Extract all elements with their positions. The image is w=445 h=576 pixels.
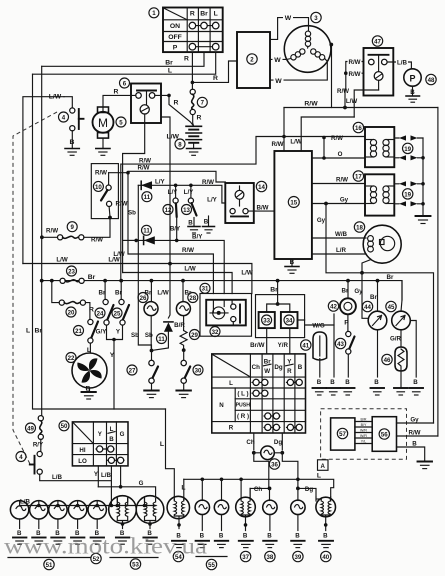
- starter motor 5: [93, 107, 114, 149]
- svg-text:19: 19: [404, 191, 411, 198]
- clutch switch 4 (top): [49, 94, 84, 149]
- svg-text:Br: Br: [370, 294, 377, 301]
- ground (53a): [116, 538, 129, 545]
- spark plugs 19 lower: [394, 181, 423, 206]
- starter cut relay 47: [354, 48, 393, 117]
- label 52: [91, 553, 101, 563]
- cooling fan 22: [72, 353, 107, 393]
- svg-text:R/W: R/W: [115, 201, 127, 208]
- ground (40): [319, 541, 333, 548]
- svg-text:O: O: [338, 151, 343, 158]
- svg-text:B/R: B/R: [174, 322, 185, 329]
- svg-text:29: 29: [191, 332, 198, 339]
- svg-text:L/Y: L/Y: [168, 189, 178, 196]
- label 24: [95, 308, 105, 318]
- mechanical link dashed: [13, 112, 57, 464]
- ground (meter 44): [371, 388, 385, 395]
- svg-text:L/B: L/B: [52, 474, 62, 481]
- svg-text:www.moto.kiev.ua: www.moto.kiev.ua: [4, 534, 207, 559]
- fuse 20 (headlight fuse): [52, 281, 94, 320]
- ground (51c): [51, 538, 64, 545]
- R/W main line across top: [284, 107, 438, 109]
- wire relay coil to L/W line: [123, 123, 145, 273]
- label 11a: [142, 192, 152, 202]
- dimmer switch 25: [115, 279, 129, 336]
- svg-text:L/W: L/W: [290, 139, 301, 146]
- label 30: [193, 365, 203, 375]
- tachometer bulb 28: [174, 279, 192, 331]
- svg-text:51: 51: [46, 562, 53, 569]
- L bus bottom: [184, 479, 334, 497]
- Gy tap to meter 44: [362, 273, 369, 319]
- svg-text:B: B: [204, 219, 209, 226]
- svg-text:L/Y: L/Y: [207, 197, 217, 204]
- svg-text:Br/W: Br/W: [250, 342, 265, 349]
- svg-text:20: 20: [68, 309, 75, 316]
- indicator lamp 39: [291, 488, 305, 539]
- ground (battery): [187, 149, 201, 156]
- Sb wire from diode line down: [138, 185, 151, 350]
- svg-text:L/W: L/W: [241, 270, 252, 277]
- svg-text:21: 21: [75, 328, 82, 335]
- svg-text:Y/L: Y/L: [361, 440, 366, 444]
- ground (51d): [71, 538, 84, 545]
- svg-text:L: L: [214, 11, 218, 18]
- svg-text:Y/R: Y/R: [278, 342, 289, 349]
- wire B flasher to ground: [397, 447, 425, 461]
- svg-text:15: 15: [290, 199, 297, 206]
- svg-text:24: 24: [97, 310, 104, 317]
- wire L from ignition to left riser: [33, 52, 216, 74]
- switch pod outer box: [256, 295, 305, 338]
- meter light bulb 26: [131, 279, 158, 353]
- label 45: [386, 301, 396, 311]
- side stand relay 14: [225, 183, 254, 223]
- label 25: [112, 308, 122, 318]
- svg-text:30: 30: [195, 367, 202, 374]
- left riser L: [33, 74, 166, 409]
- svg-text:B: B: [345, 379, 350, 386]
- svg-text:49: 49: [27, 425, 34, 432]
- svg-text:W/G: W/G: [312, 322, 325, 329]
- svg-text:R/W: R/W: [331, 135, 343, 142]
- svg-text:56: 56: [381, 431, 388, 438]
- spark plug common ground wire: [422, 138, 424, 216]
- svg-text:L/W: L/W: [113, 251, 124, 258]
- parking switch 4b: [30, 439, 111, 481]
- svg-text:Br: Br: [99, 289, 106, 296]
- ground (CDI): [285, 267, 299, 274]
- R/W riser to relay 47: [344, 89, 346, 108]
- svg-text:11: 11: [158, 336, 165, 343]
- label 37: [240, 551, 250, 561]
- label 34: [284, 315, 294, 325]
- svg-text:B: B: [374, 379, 379, 386]
- wire Y/R from 34 to table: [289, 328, 291, 354]
- svg-text:46: 46: [384, 357, 391, 364]
- R/W line mid (box 14 feed): [128, 171, 225, 182]
- svg-text:47: 47: [374, 38, 381, 45]
- svg-text:R: R: [213, 75, 218, 82]
- wire Ch to indicator lamps: [254, 453, 269, 489]
- svg-text:R/Y: R/Y: [33, 441, 44, 448]
- horn 48: [404, 69, 421, 96]
- label 33: [262, 315, 272, 325]
- label 9: [67, 222, 77, 232]
- svg-text:L: L: [317, 473, 321, 480]
- L/W drop with diode 11c: [152, 264, 174, 351]
- svg-text:16: 16: [355, 125, 362, 132]
- brake switch 43: [345, 331, 354, 386]
- svg-text:9: 9: [71, 224, 75, 231]
- svg-text:Br: Br: [115, 289, 122, 296]
- label 21: [74, 326, 84, 336]
- fuse 23 (signal fuse): [60, 278, 84, 283]
- svg-text:14: 14: [258, 184, 265, 191]
- label 38: [265, 551, 275, 561]
- flasher unit 56: [372, 417, 396, 452]
- svg-text:W: W: [275, 78, 282, 85]
- label 2: [247, 54, 257, 64]
- fuse 49: [33, 416, 44, 449]
- wire W/G from 34 to tail lamp: [298, 314, 335, 325]
- horn button 42: [340, 279, 356, 332]
- label 49: [26, 423, 36, 433]
- svg-text:B: B: [295, 533, 300, 540]
- svg-text:33: 33: [263, 317, 270, 324]
- svg-text:38: 38: [267, 554, 274, 561]
- indicator lamp 38: [263, 488, 277, 539]
- svg-text:R/W: R/W: [137, 165, 149, 172]
- svg-text:19: 19: [404, 146, 411, 153]
- svg-text:28: 28: [189, 295, 196, 302]
- label 8: [175, 139, 185, 149]
- rectifier/regulator 2: [237, 32, 270, 88]
- label 3: [311, 12, 321, 22]
- label 23: [67, 266, 77, 276]
- svg-text:R: R: [114, 89, 119, 96]
- wire B/Y left of diode to L/W riser: [123, 239, 137, 241]
- starter button unit 32: [200, 294, 252, 337]
- svg-text:R/W: R/W: [348, 71, 360, 78]
- svg-text:L/Y: L/Y: [184, 189, 194, 196]
- wire relay 6 right to L/W riser: [161, 117, 170, 264]
- svg-text:1: 1: [152, 10, 156, 17]
- wire pickup 18 to Gy junction: [362, 260, 371, 273]
- headlamp 53b: [136, 496, 164, 537]
- svg-text:R: R: [190, 11, 195, 18]
- label 28: [188, 293, 198, 303]
- svg-text:18: 18: [356, 224, 363, 231]
- L wire vertical right of table: [166, 409, 175, 497]
- svg-text:B: B: [323, 533, 328, 540]
- svg-text:G: G: [139, 480, 144, 487]
- svg-text:R: R: [89, 307, 94, 314]
- temp sensor 46: [395, 347, 407, 387]
- svg-text:G/R: G/R: [390, 336, 402, 343]
- svg-text:43: 43: [337, 341, 344, 348]
- svg-text:HI: HI: [79, 447, 85, 454]
- svg-text:Ch: Ch: [246, 439, 254, 446]
- svg-text:L/B: L/B: [397, 60, 407, 67]
- wire B ground (aux): [208, 216, 210, 226]
- label 15: [288, 197, 299, 208]
- svg-text:R/W: R/W: [46, 228, 58, 235]
- svg-text:Gy: Gy: [354, 288, 363, 295]
- switch 34: [281, 312, 298, 328]
- label 42: [328, 301, 338, 311]
- svg-text:W: W: [264, 368, 270, 375]
- node R junction: [191, 81, 195, 85]
- svg-text:B: B: [412, 440, 417, 447]
- svg-text:A: A: [320, 463, 325, 470]
- position lamp 54: [167, 479, 189, 539]
- label 29: [190, 330, 200, 340]
- battery 8: [186, 115, 202, 149]
- wire B ground contact 13: [193, 218, 195, 227]
- label 16: [353, 122, 363, 132]
- bracket label 51: [8, 557, 90, 559]
- svg-text:L/B: L/B: [101, 472, 111, 479]
- bracket label 53: [110, 557, 158, 559]
- label 5: [116, 117, 126, 127]
- label 17: [353, 171, 363, 181]
- wire W/G box ground: [333, 325, 335, 377]
- tail lamp 52: [88, 501, 106, 537]
- svg-text:Br: Br: [35, 328, 43, 335]
- svg-text:L/R: L/R: [336, 247, 346, 254]
- label 56: [379, 429, 389, 439]
- wire R/W from alternator down: [331, 45, 333, 108]
- diode 11b on B/Y line: [134, 233, 224, 293]
- ground (fan): [82, 392, 96, 399]
- label 31 (handlebar switch assy): [200, 283, 210, 293]
- tail lamp 55b: [214, 479, 228, 539]
- svg-text:36: 36: [271, 461, 278, 468]
- wire B/W relay14 to CDI: [248, 210, 274, 212]
- svg-text:R: R: [229, 425, 234, 432]
- Br feed to switch pod 33/34: [277, 281, 279, 304]
- label 39: [293, 551, 303, 561]
- wire relay 6 output to battery: [155, 95, 194, 126]
- light switch table 50: [72, 422, 128, 466]
- ground (meter 45 B wire): [410, 388, 424, 395]
- meter lamp 51c: [49, 501, 67, 537]
- svg-text:48: 48: [428, 77, 435, 84]
- label 4: [59, 112, 69, 122]
- alternator 3: [284, 26, 331, 73]
- svg-text:R/W: R/W: [336, 177, 348, 184]
- fan switch 21: [87, 319, 98, 353]
- svg-text:37: 37: [242, 554, 249, 561]
- wire Y from dimmer to light switch 50: [107, 325, 123, 409]
- svg-text:L/W: L/W: [167, 134, 180, 141]
- svg-text:R: R: [287, 368, 292, 375]
- wire B CDI ground: [291, 259, 293, 266]
- label 48: [426, 74, 436, 84]
- svg-text:10: 10: [95, 184, 102, 191]
- svg-text:34: 34: [286, 317, 293, 324]
- svg-text:Gy: Gy: [340, 197, 349, 204]
- svg-text:57: 57: [339, 431, 346, 438]
- svg-text:B/R: B/R: [361, 418, 367, 422]
- R/W line upper (to CDI): [121, 137, 365, 281]
- svg-text:W/B: W/B: [335, 231, 348, 238]
- svg-text:50: 50: [61, 423, 68, 430]
- ground (horn): [406, 96, 420, 102]
- temp meter 45: [387, 274, 419, 386]
- svg-text:B: B: [413, 379, 418, 386]
- svg-text:13: 13: [183, 207, 190, 214]
- svg-text:W: W: [274, 57, 281, 64]
- svg-text:N: N: [219, 402, 224, 409]
- svg-text:L/W: L/W: [346, 98, 357, 105]
- svg-text:L: L: [229, 380, 233, 387]
- svg-text:( R ): ( R ): [237, 413, 249, 420]
- svg-text:B: B: [243, 533, 248, 540]
- svg-text:11: 11: [143, 228, 150, 235]
- svg-text:Br: Br: [165, 59, 173, 66]
- ground (flasher): [418, 462, 433, 469]
- svg-text:W/R: W/R: [360, 429, 367, 433]
- label 32: [210, 327, 220, 337]
- svg-text:B: B: [330, 379, 335, 386]
- relay 47 bracket wires: [346, 62, 364, 90]
- svg-text:Ch: Ch: [252, 364, 260, 371]
- ground (52): [91, 538, 104, 545]
- ground (switch 27): [144, 391, 159, 398]
- ground (contact 13): [188, 227, 200, 234]
- svg-text:R/W: R/W: [337, 88, 349, 95]
- L/W line lower: [123, 273, 233, 294]
- ground (55a): [196, 541, 209, 548]
- svg-text:P: P: [409, 73, 415, 83]
- wire R/W flasher: [397, 435, 438, 437]
- svg-text:42: 42: [330, 303, 337, 310]
- Br bus: [42, 281, 402, 300]
- svg-text:55: 55: [208, 562, 215, 569]
- meter lamp 51b: [30, 501, 48, 537]
- svg-text:Dg: Dg: [274, 439, 282, 446]
- turn signal switch table 35: [212, 354, 306, 433]
- ground (51a): [13, 538, 26, 545]
- wire Br from ignition to left riser: [42, 52, 204, 66]
- svg-text:B: B: [109, 436, 114, 443]
- svg-text:( L ): ( L ): [237, 391, 248, 398]
- svg-text:L/W: L/W: [56, 257, 67, 264]
- wire Gy flasher: [397, 422, 434, 424]
- switch 33: [259, 304, 290, 328]
- svg-text:L/Y: L/Y: [155, 178, 165, 185]
- svg-text:OFF: OFF: [168, 34, 182, 41]
- flasher relay assembly A (dashed box): [321, 409, 407, 459]
- svg-text:ON: ON: [170, 23, 180, 30]
- svg-text:R/W: R/W: [139, 157, 151, 164]
- svg-text:Sb: Sb: [131, 332, 139, 339]
- svg-text:L/W: L/W: [184, 266, 195, 273]
- headlamp 53a: [109, 496, 137, 537]
- svg-text:B: B: [267, 533, 272, 540]
- wire R from ignition to rectifier: [192, 52, 237, 82]
- ground (51b): [32, 538, 45, 545]
- label 11b: [142, 225, 152, 235]
- wire L/B to horn: [387, 62, 411, 69]
- svg-text:R: R: [174, 100, 179, 107]
- diode 11a on L/Y line: [138, 178, 225, 203]
- svg-text:G: G: [120, 431, 125, 438]
- svg-text:R/W: R/W: [182, 247, 194, 254]
- label 14: [256, 181, 266, 191]
- label 13: [182, 205, 192, 215]
- ignition switch U1 (table component 1): [163, 8, 223, 53]
- svg-text:Ch: Ch: [254, 486, 262, 493]
- label 18: [354, 222, 364, 232]
- label 27: [127, 365, 137, 375]
- svg-text:LO: LO: [78, 458, 87, 465]
- wire W bottom: [270, 62, 327, 81]
- ground (55b): [215, 541, 228, 548]
- R/W riser to CDI: [283, 108, 285, 152]
- svg-text:11: 11: [144, 194, 151, 201]
- wire Y from table 50: [97, 466, 99, 487]
- label 43: [335, 338, 345, 348]
- svg-text:Br: Br: [270, 287, 278, 294]
- svg-text:R/W: R/W: [271, 141, 283, 148]
- label 10: [93, 181, 103, 191]
- label 41: [301, 340, 311, 350]
- tachometer 44: [368, 279, 387, 386]
- wire R/W CDI to coil 17: [312, 183, 365, 185]
- svg-text:Br: Br: [342, 288, 349, 295]
- label 26: [138, 293, 148, 303]
- label A: [318, 460, 329, 471]
- svg-text:B: B: [69, 139, 74, 146]
- meter lamp 51a: [10, 501, 28, 537]
- svg-text:R/W: R/W: [91, 237, 103, 244]
- svg-text:22: 22: [68, 355, 75, 362]
- wire B/Y from contact 12: [176, 217, 178, 240]
- wire G from table 50: [120, 466, 122, 487]
- tail lamp 41: [313, 332, 327, 386]
- R/W riser down to starter button line: [128, 173, 213, 294]
- connector wires 57-56: [355, 418, 372, 444]
- resistor 29: [180, 331, 187, 349]
- svg-text:45: 45: [388, 304, 395, 311]
- svg-text:53: 53: [132, 561, 139, 568]
- svg-text:23: 23: [68, 268, 75, 275]
- svg-text:B/Y: B/Y: [361, 423, 367, 427]
- label 6: [120, 78, 130, 88]
- meter lamp 51d: [68, 501, 86, 537]
- bracket label 55: [196, 556, 227, 558]
- pickup coil unit 18: [363, 225, 401, 263]
- svg-text:B/Y: B/Y: [170, 226, 181, 233]
- label 19 upper: [403, 143, 413, 153]
- oil level switch 27: [149, 351, 158, 391]
- svg-text:B: B: [298, 364, 303, 371]
- spark plugs 19 upper: [394, 135, 423, 160]
- ground (motor): [96, 149, 110, 156]
- wire L/W switch4 to bus: [23, 97, 64, 264]
- svg-text:L: L: [26, 328, 30, 335]
- svg-text:B: B: [290, 259, 295, 266]
- fuse 7 (main fuse): [190, 82, 201, 121]
- ground (39): [291, 541, 304, 548]
- ground (37): [239, 541, 253, 548]
- wire L/B from table 50: [110, 466, 112, 506]
- svg-text:B: B: [188, 220, 193, 227]
- svg-text:L: L: [168, 67, 172, 74]
